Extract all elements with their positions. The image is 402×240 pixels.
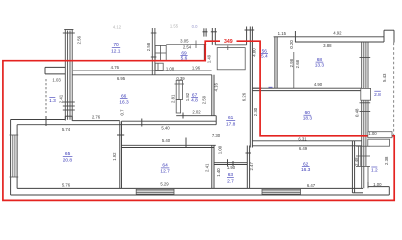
window bottom room64 bbox=[136, 189, 174, 194]
svg-text:1.2: 1.2 bbox=[371, 167, 378, 173]
balcony 2.8 label bbox=[374, 91, 381, 98]
room68 label bbox=[315, 57, 325, 68]
door room68 to balcony bbox=[361, 88, 371, 100]
wall room67 right x211-214 going down to hall bbox=[212, 75, 214, 116]
svg-text:1.00: 1.00 bbox=[218, 145, 223, 154]
svg-text:12.1: 12.1 bbox=[111, 48, 121, 54]
wall corridor top band left part bbox=[45, 67, 65, 74]
svg-text:0.7: 0.7 bbox=[120, 109, 125, 116]
wall corridor top band right part bbox=[72, 71, 212, 75]
wall central long x250-252 bbox=[245, 27, 255, 148]
svg-text:4.8: 4.8 bbox=[191, 98, 198, 104]
wall hall left x212-214 lower bbox=[212, 145, 214, 188]
balcony 1.3 label bbox=[49, 98, 56, 104]
room62 right wall bbox=[352, 141, 363, 193]
room60 label bbox=[303, 110, 313, 122]
room65 label bbox=[63, 151, 73, 163]
svg-text:0.48: 0.48 bbox=[355, 108, 360, 117]
wall room65 top bbox=[11, 116, 217, 127]
svg-text:7.30: 7.30 bbox=[212, 133, 221, 138]
svg-text:4.92: 4.92 bbox=[333, 31, 342, 36]
wall hatched right x362-368 bbox=[360, 42, 371, 188]
svg-text:12.7: 12.7 bbox=[160, 168, 170, 174]
bottom outer wall bbox=[11, 187, 390, 195]
svg-text:2.30: 2.30 bbox=[253, 107, 258, 116]
svg-text:2.98: 2.98 bbox=[289, 58, 294, 67]
svg-text:4.90: 4.90 bbox=[314, 82, 323, 87]
svg-text:16.3: 16.3 bbox=[301, 167, 311, 173]
svg-text:1.00: 1.00 bbox=[368, 131, 377, 136]
svg-text:2.8: 2.8 bbox=[374, 92, 381, 98]
duct column room66/67 bbox=[175, 80, 185, 113]
top right outer wall bbox=[274, 30, 394, 42]
svg-text:1.08: 1.08 bbox=[166, 67, 175, 72]
svg-text:349: 349 bbox=[224, 39, 233, 45]
duct boxes top middle bbox=[155, 45, 166, 70]
wall room60/62 band bbox=[252, 141, 361, 146]
svg-text:6.31: 6.31 bbox=[298, 137, 307, 142]
bathroom63 top wall bbox=[214, 159, 247, 166]
svg-text:17.8: 17.8 bbox=[226, 122, 236, 128]
svg-text:2.58: 2.58 bbox=[146, 42, 151, 51]
svg-text:5.74: 5.74 bbox=[62, 127, 71, 132]
svg-text:4.12: 4.12 bbox=[113, 25, 122, 30]
svg-text:1.82: 1.82 bbox=[185, 92, 190, 101]
svg-text:2.41: 2.41 bbox=[59, 94, 64, 103]
wall room64/65 divider bbox=[117, 121, 124, 188]
wall hatched left vertical x65-72 bbox=[63, 30, 75, 121]
red label 349 bbox=[220, 38, 237, 45]
svg-text:5.40: 5.40 bbox=[161, 126, 170, 131]
room56 label bbox=[261, 48, 268, 59]
svg-text:2.48: 2.48 bbox=[354, 157, 359, 166]
dashed balcony edge right bbox=[393, 43, 395, 136]
svg-text:6.95: 6.95 bbox=[117, 76, 126, 81]
room63 label bbox=[227, 172, 234, 184]
svg-text:2.02: 2.02 bbox=[192, 109, 201, 114]
balcony 1.2 inner edge bbox=[367, 166, 369, 186]
wall partition x293 room68 bbox=[293, 52, 295, 88]
wall room69 top thin line bbox=[166, 41, 206, 61]
svg-text:6.47: 6.47 bbox=[307, 183, 316, 188]
svg-text:1.03: 1.03 bbox=[52, 77, 61, 82]
svg-text:18.3: 18.3 bbox=[303, 116, 313, 122]
svg-text:1.90: 1.90 bbox=[227, 165, 236, 170]
svg-text:2.38: 2.38 bbox=[384, 156, 389, 165]
room70 label bbox=[111, 42, 121, 54]
svg-text:1.3: 1.3 bbox=[49, 98, 56, 104]
room69 label bbox=[180, 51, 187, 62]
svg-text:4.00: 4.00 bbox=[252, 48, 257, 57]
room62 label bbox=[301, 161, 311, 173]
wall corridor stub to red right bbox=[252, 87, 261, 89]
svg-text:2.47: 2.47 bbox=[249, 162, 254, 171]
room61 label bbox=[226, 115, 236, 128]
svg-text:3.05: 3.05 bbox=[180, 39, 189, 44]
room66 label bbox=[119, 93, 129, 105]
svg-text:2.59: 2.59 bbox=[202, 95, 207, 104]
neighbour bathroom box bbox=[215, 45, 246, 70]
svg-text:0.0: 0.0 bbox=[192, 24, 198, 29]
svg-text:1.15: 1.15 bbox=[278, 31, 287, 36]
svg-text:2.81: 2.81 bbox=[170, 94, 175, 103]
wall neighbour duct column x152-155 bbox=[151, 28, 157, 75]
wall y88-90 under room68 bbox=[252, 88, 361, 90]
left outer wall bbox=[11, 120, 18, 196]
svg-text:1.49: 1.49 bbox=[207, 54, 212, 63]
svg-text:65: 65 bbox=[65, 151, 71, 157]
wall room64 top band bbox=[121, 138, 216, 148]
svg-text:1.40: 1.40 bbox=[216, 168, 221, 177]
svg-text:13.3: 13.3 bbox=[315, 62, 325, 68]
svg-text:1.96: 1.96 bbox=[192, 65, 201, 70]
svg-text:2.7: 2.7 bbox=[227, 178, 234, 184]
svg-text:5.43: 5.43 bbox=[382, 73, 387, 82]
wall room68 left x275-277 bbox=[275, 37, 277, 88]
svg-text:20.8: 20.8 bbox=[63, 158, 73, 164]
svg-text:16.3: 16.3 bbox=[119, 100, 129, 106]
svg-text:5.6: 5.6 bbox=[181, 56, 188, 62]
svg-text:5.4: 5.4 bbox=[261, 54, 268, 60]
window room62 balcony bbox=[356, 146, 370, 166]
svg-text:5.29: 5.29 bbox=[160, 182, 169, 187]
balcony 1.2 label bbox=[371, 167, 378, 173]
svg-text:6.26: 6.26 bbox=[242, 92, 247, 101]
balcony window boxes over red right bbox=[368, 132, 392, 147]
red apartment outline bbox=[3, 41, 394, 200]
svg-text:3.88: 3.88 bbox=[323, 43, 332, 48]
svg-text:5.76: 5.76 bbox=[62, 183, 71, 188]
svg-text:2.54: 2.54 bbox=[183, 44, 192, 49]
bathroom63 right wall bbox=[246, 146, 252, 189]
svg-text:0.20: 0.20 bbox=[289, 40, 294, 49]
dashed old wall left bbox=[45, 79, 47, 113]
wall stub x212-215 top bbox=[211, 28, 217, 45]
svg-text:0.39: 0.39 bbox=[176, 76, 185, 81]
svg-text:1.55: 1.55 bbox=[170, 23, 179, 28]
window bottom room62 bbox=[262, 189, 301, 194]
svg-text:2.56: 2.56 bbox=[76, 35, 81, 44]
svg-text:2.68: 2.68 bbox=[295, 59, 300, 68]
svg-text:61: 61 bbox=[228, 115, 234, 121]
svg-text:2.41: 2.41 bbox=[205, 163, 210, 172]
svg-text:1.00: 1.00 bbox=[373, 182, 382, 187]
wall stub x204-206 top bbox=[203, 28, 208, 36]
svg-text:1.92: 1.92 bbox=[112, 152, 117, 161]
svg-text:6.49: 6.49 bbox=[299, 146, 308, 151]
wall room67 bottom band bbox=[176, 113, 216, 119]
door mark blue corridor bbox=[269, 86, 273, 88]
svg-text:5.40: 5.40 bbox=[162, 138, 171, 143]
window left wall bbox=[10, 135, 19, 177]
svg-text:2.76: 2.76 bbox=[92, 115, 101, 120]
svg-text:4.16: 4.16 bbox=[213, 83, 218, 92]
room67 label bbox=[191, 92, 198, 103]
room64 label bbox=[160, 163, 170, 175]
svg-text:4.76: 4.76 bbox=[111, 65, 120, 70]
